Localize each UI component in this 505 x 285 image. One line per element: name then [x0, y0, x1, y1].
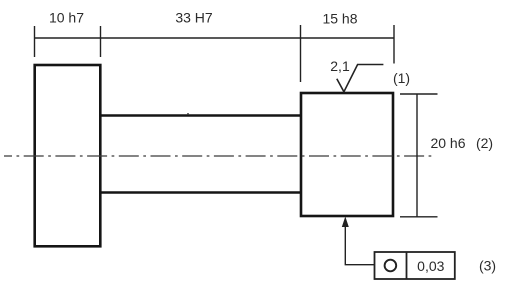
svg-text:(2): (2): [476, 135, 493, 151]
extension tick x=394: [393, 25, 395, 64]
svg-text:(1): (1): [393, 70, 410, 86]
svg-text:10 h7: 10 h7: [49, 10, 84, 26]
shaft top line: [100, 114, 302, 116]
20h6 dimension line vertical: [416, 94, 418, 217]
extension tick x=100.5: [100, 26, 102, 57]
feature control frame: [375, 252, 455, 279]
surface roughness symbol: [337, 65, 384, 92]
svg-text:(3): (3): [479, 258, 496, 274]
leader line to frame: [345, 221, 374, 265]
svg-text:33 H7: 33 H7: [175, 10, 213, 26]
svg-text:20 h6: 20 h6: [430, 135, 465, 151]
svg-text:2,1: 2,1: [330, 58, 350, 74]
flange rectangle (left): [35, 65, 101, 246]
right journal rectangle: [301, 93, 393, 216]
frame divider: [406, 252, 408, 279]
svg-text:15 h8: 15 h8: [322, 11, 357, 27]
dimension line (top chained dims): [35, 37, 395, 39]
shaft bottom line: [100, 191, 302, 193]
20h6 extension tick top: [400, 93, 438, 95]
circularity symbol: [385, 260, 397, 272]
extension tick x=34.5: [34, 26, 36, 57]
small dot on shaft top line: [187, 113, 189, 115]
20h6 extension tick bottom: [400, 216, 438, 218]
leader arrowhead: [342, 217, 349, 228]
svg-text:0,03: 0,03: [417, 258, 444, 274]
center line (dash-dot): [4, 155, 433, 157]
extension tick x=300.5: [300, 25, 302, 82]
